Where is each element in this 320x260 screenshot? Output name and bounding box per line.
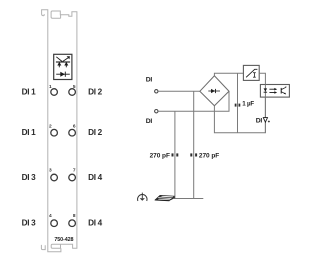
wire bridge top to filter box (214, 73, 243, 76)
capacitor C3 270pF plates (190, 153, 197, 156)
capacitor C2 270pF plates (172, 153, 179, 156)
svg-text:DI 3: DI 3 (22, 173, 37, 182)
terminal circles row 3 (51, 174, 76, 181)
pin numbers 2 6 (49, 124, 76, 130)
pin numbers 1 5 (49, 84, 76, 90)
svg-text:DI 4: DI 4 (88, 219, 103, 228)
module top cover tick (60, 15, 62, 18)
svg-text:2: 2 (49, 124, 52, 130)
svg-text:DI 1: DI 1 (22, 128, 37, 137)
bus output arrow (263, 118, 267, 123)
pin numbers 4 8 (49, 213, 76, 219)
svg-text:6: 6 (73, 124, 76, 130)
optocoupler box (260, 85, 289, 98)
DIN rail symbol (155, 195, 175, 200)
earth potential symbol (138, 193, 147, 201)
LED indicator box (54, 54, 72, 79)
wire input 1 to bridge (158, 90, 200, 92)
svg-text:8: 8 (73, 213, 76, 219)
wire through optocoupler (264, 85, 266, 98)
svg-text:3: 3 (49, 168, 52, 174)
module bottom latch (41, 245, 45, 250)
diode inside bridge (208, 89, 220, 93)
optocoupler light arrows (269, 88, 277, 94)
wire filter to optocoupler (259, 73, 265, 84)
svg-text:DI 4: DI 4 (88, 173, 103, 182)
module bottom cover tick (60, 244, 62, 248)
wire input 2 to bridge right corner (158, 91, 229, 111)
svg-text:DI: DI (146, 76, 153, 83)
input terminal 1 (155, 90, 158, 93)
pin numbers 3 7 (49, 168, 76, 174)
terminal circles row 1 (51, 89, 76, 96)
svg-text:DI: DI (146, 118, 153, 125)
svg-text:270 pF: 270 pF (199, 152, 219, 159)
wire optocoupler down to return (264, 97, 266, 133)
svg-text:1 µF: 1 µF (242, 101, 254, 108)
wire capacitor C3 branch (193, 91, 195, 198)
svg-text:1: 1 (49, 84, 52, 90)
svg-text:DI 1: DI 1 (22, 87, 37, 96)
ground rail wire (174, 198, 203, 200)
terminal circles row 2 (51, 129, 76, 136)
svg-text:DI 2: DI 2 (88, 87, 103, 96)
filter symbol (246, 69, 257, 77)
svg-text:750-428: 750-428 (54, 237, 73, 243)
module top cover profile (51, 11, 77, 248)
filter box (243, 65, 259, 80)
optocoupler LED (264, 88, 268, 92)
svg-text:DI: DI (256, 118, 263, 125)
bus output plus (268, 121, 270, 123)
module body outline (42, 10, 61, 252)
diode symbol in LED box (56, 72, 70, 77)
wire bridge bottom loop to optocoupler (214, 97, 265, 133)
svg-text:DI 2: DI 2 (88, 128, 103, 137)
input terminal 2 (155, 110, 158, 113)
svg-text:270 pF: 270 pF (150, 152, 170, 159)
svg-text:7: 7 (73, 168, 76, 174)
svg-text:DI 3: DI 3 (22, 219, 37, 228)
svg-text:4: 4 (49, 213, 52, 219)
LED symbols (56, 56, 70, 67)
optocoupler phototransistor (281, 86, 286, 94)
bridge rectifier diamond (200, 76, 229, 106)
terminal circles row 4 (51, 220, 76, 227)
svg-text:5: 5 (73, 84, 76, 90)
wire 1uF branch (237, 73, 239, 133)
wire capacitor C2 branch (174, 111, 176, 198)
capacitor C1 1uF plates (235, 104, 241, 107)
